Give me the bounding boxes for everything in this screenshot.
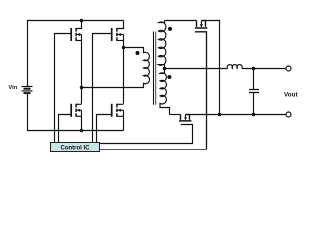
svg-text:Vout: Vout bbox=[284, 91, 298, 98]
transistor Q1 channel bbox=[75, 28, 77, 41]
wire: Q4 source to bottom rail bbox=[123, 110, 125, 130]
junction: Q3 source on bottom rail bbox=[80, 129, 84, 133]
transistor Q4 body arrow bbox=[118, 109, 124, 111]
wire: center tap to inductor bbox=[165, 68, 228, 70]
svg-text:Control IC: Control IC bbox=[61, 145, 91, 151]
junction: SR1 source on bottom rail bbox=[218, 113, 222, 117]
transistor SR2 channel bbox=[179, 120, 191, 122]
wire: secondary top to SR1 drain bbox=[165, 20, 197, 22]
junction: center tap bbox=[163, 67, 167, 71]
polarity dot secondary bottom bbox=[167, 75, 171, 79]
transistor Q1 (high-side left) gate bar bbox=[70, 28, 72, 41]
transistor SR1 channel bbox=[195, 27, 208, 29]
transistor Q2 (high-side right) gate bar bbox=[111, 28, 113, 41]
transistor SR2 body arrow bbox=[185, 115, 187, 118]
transformer core bbox=[153, 32, 155, 105]
wire: bottom output rail bbox=[190, 114, 287, 116]
junction: Q1 drain on top rail bbox=[80, 19, 84, 23]
transistor Q4 channel bbox=[116, 104, 118, 117]
transistor Q1 source lead bbox=[76, 40, 81, 42]
wire: SR1 gate to Control IC bbox=[195, 32, 207, 150]
transistor Q3 (low-side left) gate bar bbox=[70, 104, 72, 117]
wire: secondary bottom to SR2 drain bbox=[170, 114, 181, 116]
wire: positive input rail (battery + to top rail) bbox=[28, 21, 124, 87]
wire: Q3 gate to Control IC bbox=[59, 115, 72, 143]
junction: node B primary tap bbox=[122, 46, 126, 50]
terminal Vout+ bbox=[286, 66, 291, 71]
transistor Q4 drain lead bbox=[117, 103, 124, 105]
transistor SR2 source bar and tick bbox=[186, 115, 190, 120]
wire: Q2 source / node B / Q4 drain vertical bbox=[123, 35, 125, 104]
wire: Q4 gate to Control IC bbox=[97, 115, 112, 143]
wire: Q2 gate to Control IC bbox=[93, 34, 112, 143]
junction: node A primary bottom bbox=[80, 86, 84, 90]
capacitor C1 bbox=[253, 69, 255, 90]
wire: negative input rail (battery - to bottom rail) bbox=[28, 94, 124, 131]
transformer T1 secondary top winding bbox=[159, 21, 166, 69]
wire: SR2 gate to Control IC bbox=[100, 125, 193, 144]
terminal Vout- bbox=[286, 112, 291, 117]
polarity dot secondary top bbox=[168, 27, 172, 31]
transistor Q2 source lead bbox=[117, 40, 124, 42]
transistor Q2 body arrow bbox=[118, 34, 124, 36]
transistor Q4 (low-side right) gate bar bbox=[111, 104, 113, 117]
transistor Q3 drain lead bbox=[76, 103, 81, 105]
inductor L1 bbox=[227, 65, 242, 69]
wire: inductor to Vout+ terminal bbox=[242, 68, 286, 70]
transistor Q3 body arrow bbox=[77, 109, 82, 111]
wire: Q3 source to bottom rail bbox=[81, 110, 83, 130]
transistor SR1 source bar and tick bbox=[201, 21, 205, 27]
op-amp U1 Control IC box bbox=[51, 143, 100, 152]
transistor SR1 (top sync rectifier) drain bar bbox=[196, 21, 198, 27]
transistor Q1 drain lead bbox=[76, 21, 81, 29]
transistor Q1 body arrow bbox=[77, 34, 82, 36]
transistor Q2 channel bbox=[116, 28, 118, 41]
wire: SR1 source to bottom output rail bbox=[206, 21, 220, 115]
transistor Q3 source lead bbox=[76, 115, 81, 117]
transistor Q4 source lead bbox=[117, 115, 124, 117]
transformer T1 primary winding bbox=[82, 48, 150, 88]
transistor SR1 body arrow bbox=[200, 21, 202, 25]
junction: cap top bbox=[252, 67, 256, 71]
battery V1 (Vin source) bbox=[22, 87, 33, 94]
transformer T1 secondary bottom winding bbox=[160, 69, 170, 115]
transistor SR2 (bottom sync rectifier) drain bar bbox=[180, 115, 182, 120]
transistor Q3 channel bbox=[75, 104, 77, 117]
junction: cap bottom bbox=[252, 113, 256, 117]
wire: Q1 source / node A / Q3 drain vertical bbox=[81, 35, 83, 104]
svg-text:Vin: Vin bbox=[8, 85, 17, 91]
transistor Q2 drain lead bbox=[117, 21, 124, 29]
polarity dot primary bbox=[136, 51, 140, 55]
wire: Q1 gate to Control IC bbox=[55, 34, 72, 143]
